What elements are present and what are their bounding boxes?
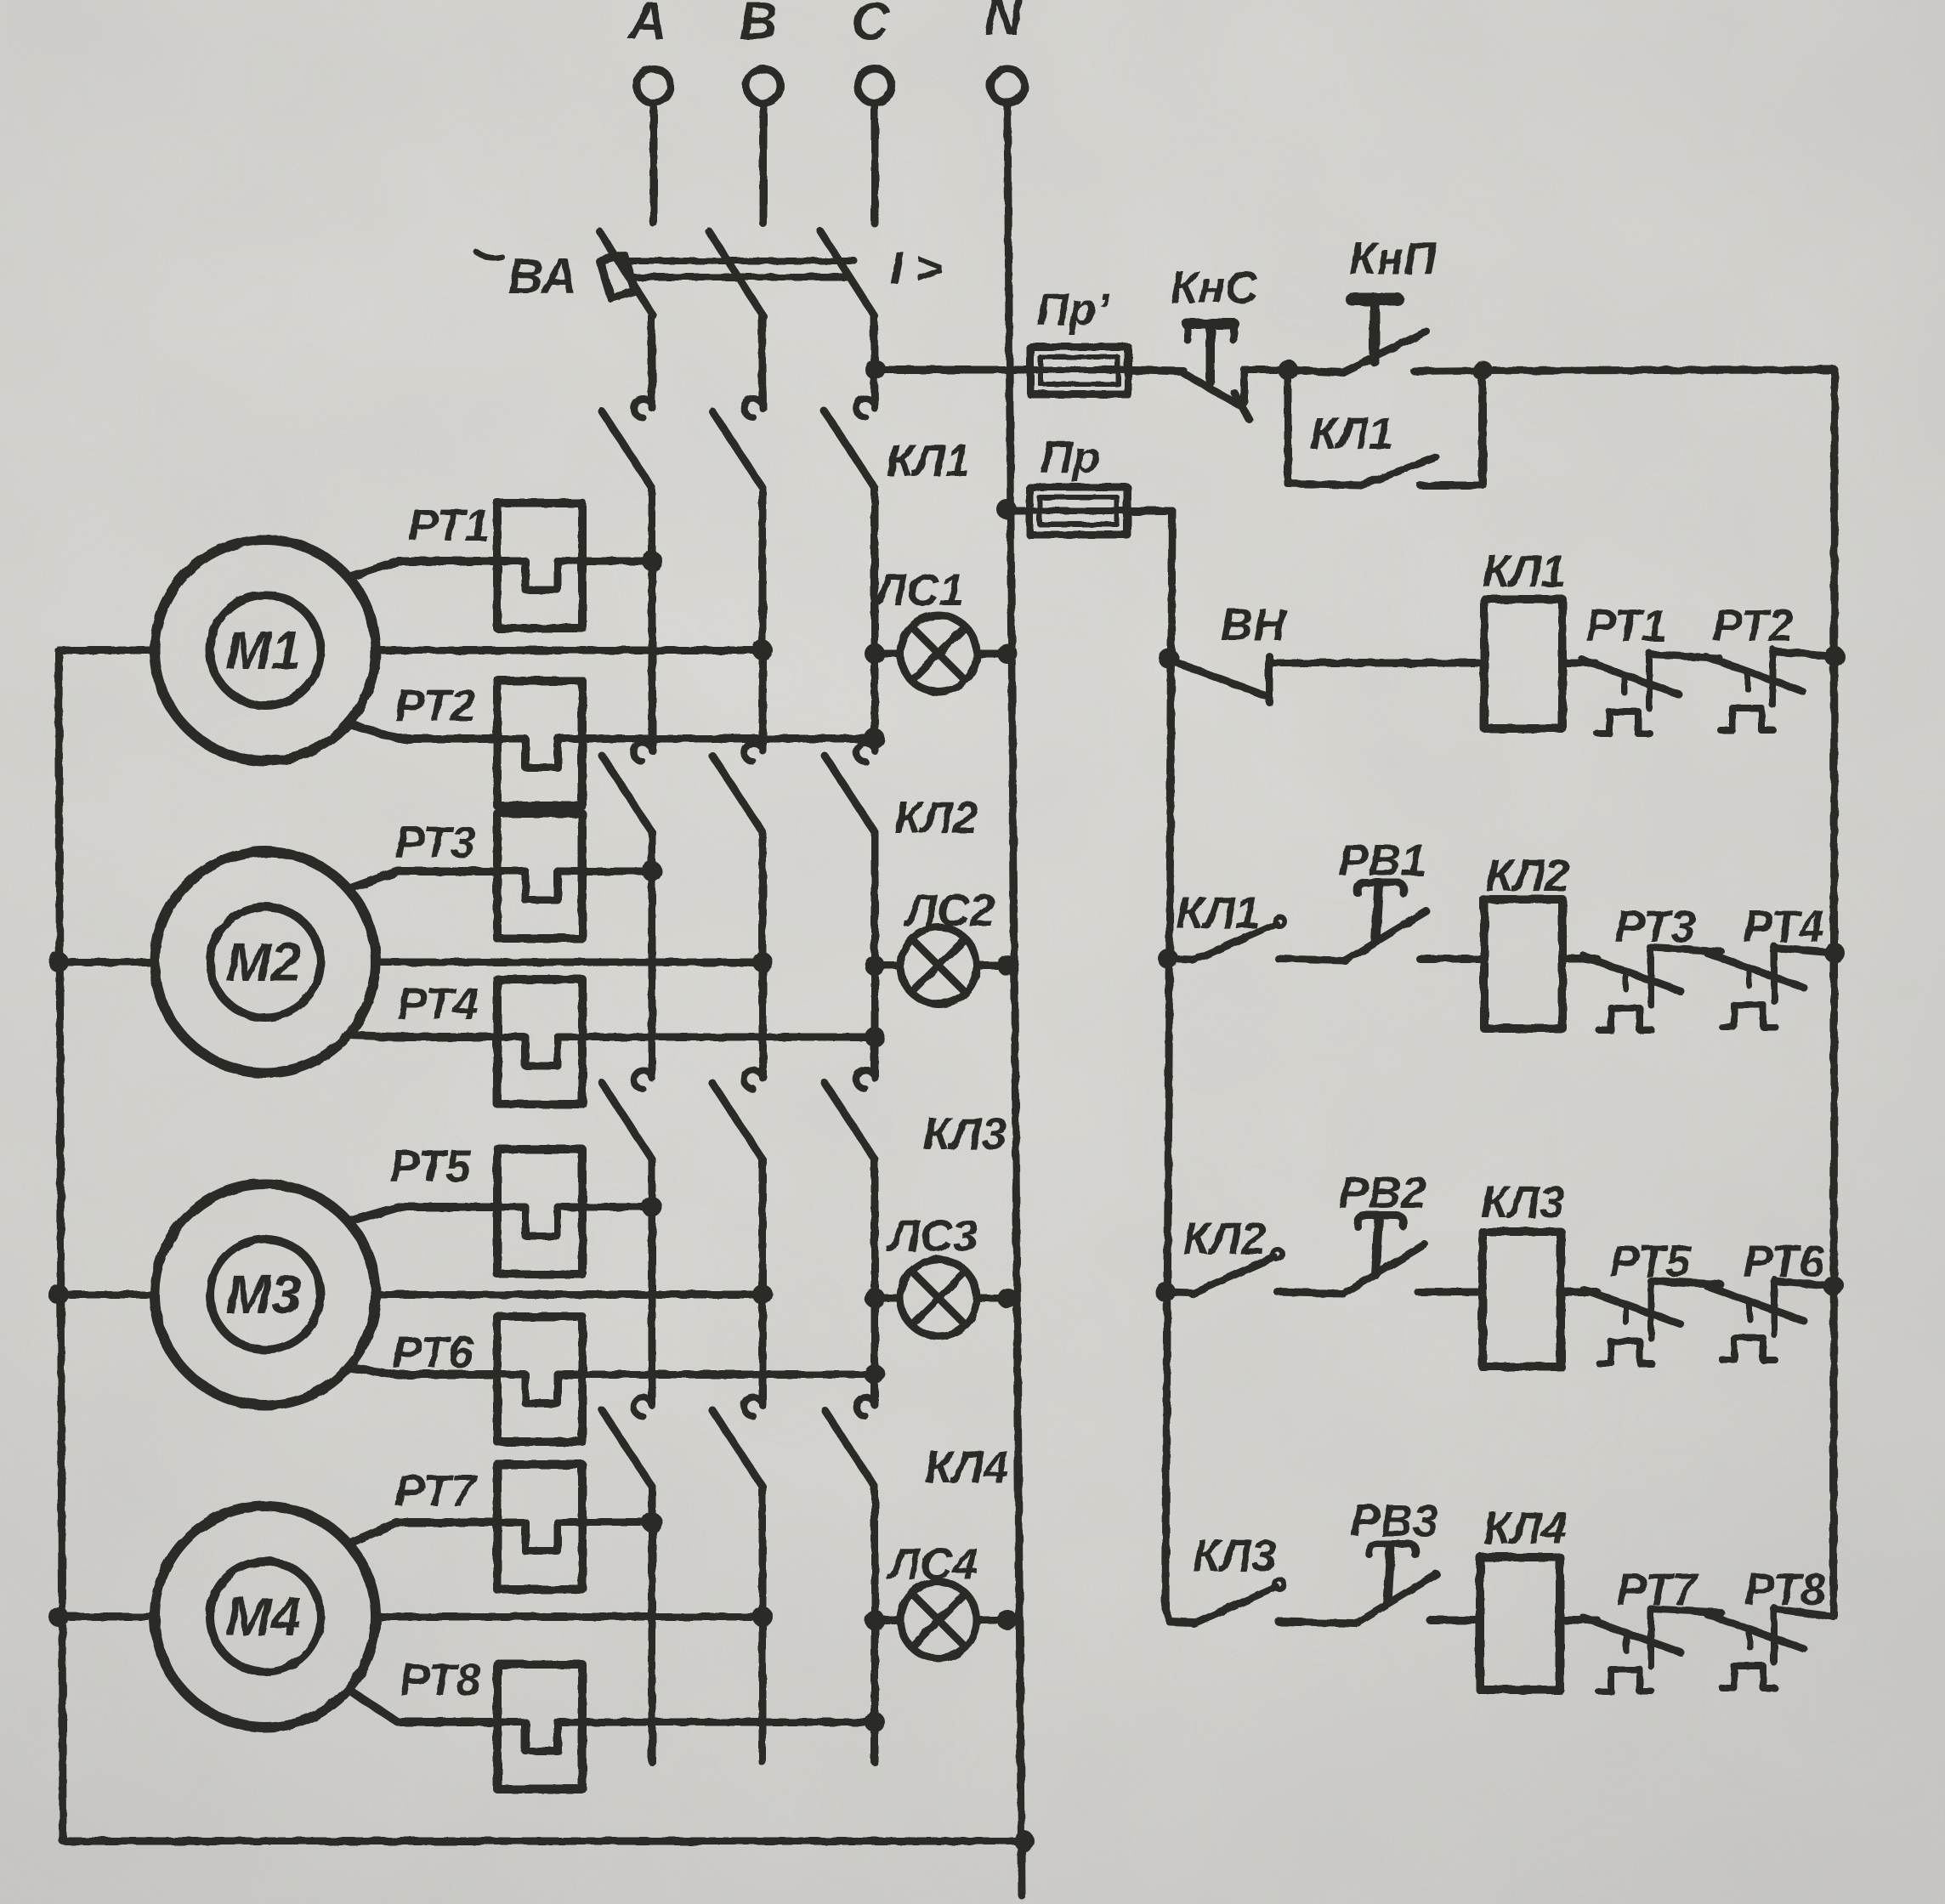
svg-text:ВН: ВН bbox=[1221, 600, 1287, 650]
svg-text:М3: М3 bbox=[226, 1264, 302, 1325]
svg-text:ЛС1: ЛС1 bbox=[872, 565, 964, 615]
svg-text:РТ7: РТ7 bbox=[394, 1466, 478, 1516]
svg-text:B: B bbox=[740, 0, 778, 51]
svg-text:РВ3: РВ3 bbox=[1350, 1496, 1437, 1546]
svg-text:Пр’: Пр’ bbox=[1036, 285, 1109, 335]
svg-text:РТ4: РТ4 bbox=[397, 979, 478, 1029]
svg-text:РТ4: РТ4 bbox=[1743, 902, 1823, 952]
svg-text:КЛ1: КЛ1 bbox=[1177, 888, 1260, 938]
svg-text:РТ2: РТ2 bbox=[1712, 601, 1793, 651]
svg-text:I >: I > bbox=[890, 243, 943, 294]
svg-text:М4: М4 bbox=[226, 1586, 302, 1647]
svg-text:РТ5: РТ5 bbox=[1609, 1237, 1692, 1287]
svg-text:КЛ2: КЛ2 bbox=[1182, 1214, 1266, 1264]
svg-text:КнП: КнП bbox=[1349, 234, 1438, 284]
svg-text:ЛС2: ЛС2 bbox=[903, 886, 995, 936]
svg-text:РТ2: РТ2 bbox=[394, 681, 475, 731]
svg-text:КЛ4: КЛ4 bbox=[925, 1442, 1008, 1493]
svg-text:КЛ1: КЛ1 bbox=[1310, 409, 1393, 459]
svg-text:М1: М1 bbox=[226, 620, 302, 681]
svg-text:КЛ3: КЛ3 bbox=[923, 1109, 1007, 1159]
svg-text:КнС: КнС bbox=[1171, 263, 1259, 313]
svg-text:РВ2: РВ2 bbox=[1338, 1168, 1426, 1218]
svg-text:C: C bbox=[852, 0, 891, 51]
svg-text:ЛС3: ЛС3 bbox=[886, 1211, 978, 1261]
svg-text:РТ6: РТ6 bbox=[392, 1328, 473, 1378]
svg-text:Пр: Пр bbox=[1041, 433, 1101, 483]
svg-text:A: A bbox=[627, 0, 667, 51]
svg-text:РТ7: РТ7 bbox=[1616, 1565, 1699, 1615]
svg-text:КЛ1: КЛ1 bbox=[1483, 547, 1566, 597]
svg-text:РТ1: РТ1 bbox=[1585, 601, 1666, 651]
svg-text:РТ8: РТ8 bbox=[1744, 1565, 1826, 1615]
svg-text:ВА: ВА bbox=[508, 249, 577, 304]
svg-text:КЛ1: КЛ1 bbox=[887, 436, 970, 486]
svg-text:КЛ4: КЛ4 bbox=[1483, 1504, 1567, 1554]
svg-text:РВ1: РВ1 bbox=[1338, 836, 1426, 886]
svg-text:КЛ2: КЛ2 bbox=[894, 793, 978, 843]
svg-text:М2: М2 bbox=[226, 932, 302, 993]
svg-text:РТ8: РТ8 bbox=[400, 1655, 481, 1705]
svg-text:РТ1: РТ1 bbox=[408, 501, 489, 551]
svg-text:ЛС4: ЛС4 bbox=[886, 1539, 978, 1589]
svg-text:КЛ2: КЛ2 bbox=[1486, 851, 1569, 901]
svg-text:N: N bbox=[984, 0, 1024, 46]
svg-text:РТ5: РТ5 bbox=[389, 1142, 472, 1192]
svg-text:КЛ3: КЛ3 bbox=[1193, 1531, 1276, 1581]
svg-text:РТ3: РТ3 bbox=[394, 818, 475, 868]
svg-text:РТ3: РТ3 bbox=[1614, 902, 1695, 952]
svg-text:КЛ3: КЛ3 bbox=[1481, 1177, 1564, 1227]
svg-text:РТ6: РТ6 bbox=[1743, 1237, 1824, 1287]
